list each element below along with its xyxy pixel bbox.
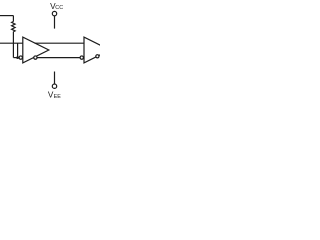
wire Vcc stub <box>54 16 56 29</box>
node junction dot <box>16 56 19 59</box>
wire U1 out- to U2 bubble <box>37 57 80 59</box>
svg-text:EE: EE <box>54 94 62 100</box>
Vcc terminal circle <box>52 11 56 15</box>
inverting output bubble U2 <box>96 55 99 58</box>
wire top-left input <box>0 15 13 17</box>
wire corner down to resistor <box>12 16 14 22</box>
wire U1 out+ to U2 in <box>35 42 84 44</box>
wire left input to op-amp U1 + <box>0 42 23 44</box>
inverting output bubble U1 <box>34 56 37 59</box>
inverting input bubble U2 <box>80 56 83 59</box>
svg-text:CC: CC <box>55 5 63 11</box>
wire Vee stub <box>54 72 56 85</box>
wire link between input wires <box>17 43 19 57</box>
op-amp U1 (fully differential) <box>23 37 49 63</box>
Vee terminal circle <box>52 84 56 88</box>
wire bottom left <box>13 57 19 59</box>
op-amp U2 (clipped at right edge) <box>84 37 110 63</box>
resistor R1 <box>12 22 16 32</box>
inverting input bubble U1 <box>19 56 22 59</box>
wire resistor to bottom rail <box>12 32 14 58</box>
